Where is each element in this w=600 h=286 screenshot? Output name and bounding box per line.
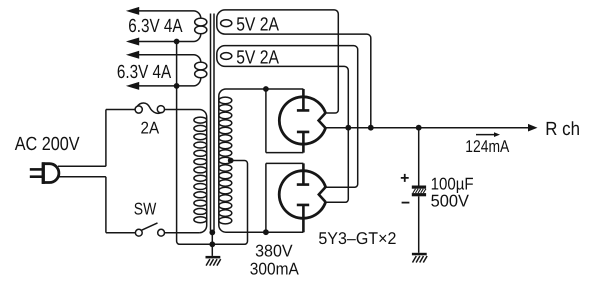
wire switch right segment xyxy=(165,232,200,234)
winding 380V secondary bus with end wires to tubes xyxy=(219,89,304,232)
plug P1 xyxy=(30,162,59,184)
node junction dot core ground upper xyxy=(209,230,215,236)
winding 6.3V 4A #2 with arrows xyxy=(126,51,207,90)
tube V2 lower 5Y3-GT envelope xyxy=(279,171,325,219)
node junction dot output/capacitor xyxy=(416,125,422,131)
wire fuse left segment xyxy=(106,109,135,111)
svg-text:R ch: R ch xyxy=(545,119,580,140)
capacitor C1 100uF xyxy=(412,186,426,197)
node center tap dot xyxy=(228,158,234,164)
svg-text:100µF: 100µF xyxy=(431,174,474,193)
svg-text:300mA: 300mA xyxy=(250,259,300,278)
svg-text:AC 200V: AC 200V xyxy=(15,134,80,155)
node junction dot HV bottom xyxy=(263,229,269,235)
svg-text:124mA: 124mA xyxy=(465,137,510,156)
wire B+ output line xyxy=(326,127,529,129)
winding 5V 2A #1 loop xyxy=(221,20,232,27)
tube V1 filament chevron xyxy=(319,113,326,128)
wire mains left vertical upper (plug to fuse line) xyxy=(105,110,107,167)
wire upper tube plates tie xyxy=(266,89,304,153)
ground symbol transformer xyxy=(206,256,221,266)
node junction dot HV top xyxy=(263,86,269,92)
label - polarity xyxy=(402,202,410,204)
transformer T1 primary winding loops xyxy=(194,117,207,223)
label + polarity xyxy=(401,174,409,182)
wire switch left segment xyxy=(106,232,135,234)
node junction dot output/cap2 xyxy=(345,125,351,131)
svg-text:380V: 380V xyxy=(255,241,293,260)
arrow 124mA current xyxy=(476,134,494,136)
wire mains left vertical lower (plug to switch line) xyxy=(105,177,107,233)
svg-text:500V: 500V xyxy=(431,192,470,211)
svg-text:2A: 2A xyxy=(141,118,160,137)
arrow R ch output xyxy=(528,124,538,132)
tube V1 bottom plate xyxy=(297,132,309,153)
node junction dot 6.3V common lower xyxy=(174,83,180,89)
fuse F1 2A xyxy=(135,103,164,113)
winding 380V secondary loops xyxy=(219,97,232,224)
winding 6.3V 4A #1 with arrows xyxy=(126,7,207,46)
wire core to ground xyxy=(211,232,213,256)
wire fuse to transformer primary with primary bus xyxy=(165,110,207,233)
svg-text:5V 2A: 5V 2A xyxy=(236,47,279,68)
svg-text:5Y3–GT×2: 5Y3–GT×2 xyxy=(318,229,396,248)
winding 5V 2A #2 loop xyxy=(221,53,232,60)
wire plug top lead xyxy=(58,165,106,167)
tube V2 bottom plate xyxy=(297,205,309,232)
tube V1 top plate xyxy=(297,89,309,110)
svg-text:6.3V 4A: 6.3V 4A xyxy=(117,62,172,83)
wire capacitor top lead xyxy=(418,128,420,186)
svg-text:5V 2A: 5V 2A xyxy=(236,14,279,35)
switch SW xyxy=(135,223,164,236)
svg-text:6.3V 4A: 6.3V 4A xyxy=(128,16,183,37)
tube V1 upper 5Y3-GT envelope xyxy=(279,97,325,144)
ground symbol capacitor xyxy=(412,253,427,263)
transformer T1 core xyxy=(211,14,215,231)
wire center tap to ground bus xyxy=(177,42,248,245)
wire plug bottom lead xyxy=(58,176,106,178)
tube V2 filament chevron xyxy=(319,187,326,202)
winding 5V 2A #2 capsule to lower tube filament xyxy=(217,46,358,203)
winding 5V 2A #1 capsule to upper tube filament xyxy=(217,10,371,128)
node junction dot core ground lower xyxy=(209,241,215,247)
wire lower tube plates tie xyxy=(266,163,304,232)
tube V2 top plate xyxy=(297,163,309,184)
node junction dot output/cap1 xyxy=(368,125,374,131)
svg-text:SW: SW xyxy=(134,199,157,218)
wire capacitor bottom lead xyxy=(418,196,420,253)
node junction dot 6.3V common upper xyxy=(174,39,180,45)
